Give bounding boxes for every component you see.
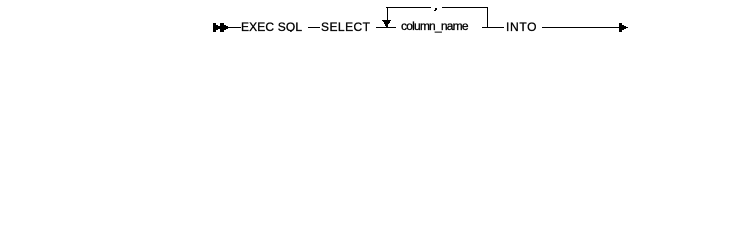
repeat loop top wire left segment	[386, 7, 431, 8]
loop separator comma	[434, 8, 437, 11]
svg-text:INTO: INTO	[506, 20, 537, 34]
wire from INTO to continuation arrow	[542, 27, 620, 28]
continuation arrowhead at line end	[619, 23, 628, 32]
svg-text:SELECT: SELECT	[321, 20, 371, 34]
repeat loop right vertical wire	[487, 7, 488, 28]
svg-text:column_name: column_name	[401, 19, 469, 33]
wire from column_name to INTO	[482, 27, 504, 28]
syntax start symbol arrowhead 2	[220, 23, 228, 32]
repeat loop left vertical wire	[387, 7, 388, 20]
wire from SELECT into repeat loop	[376, 27, 396, 28]
repeat loop top wire right segment	[442, 7, 488, 8]
repeat loop down arrowhead	[382, 20, 391, 27]
svg-text:EXEC SQL: EXEC SQL	[241, 20, 302, 34]
wire from start symbol to EXEC SQL	[213, 27, 241, 28]
syntax start symbol arrowhead 1	[213, 23, 220, 32]
white mask trimming Q descender	[287, 32, 297, 35]
wire between EXEC SQL and SELECT	[308, 27, 320, 28]
